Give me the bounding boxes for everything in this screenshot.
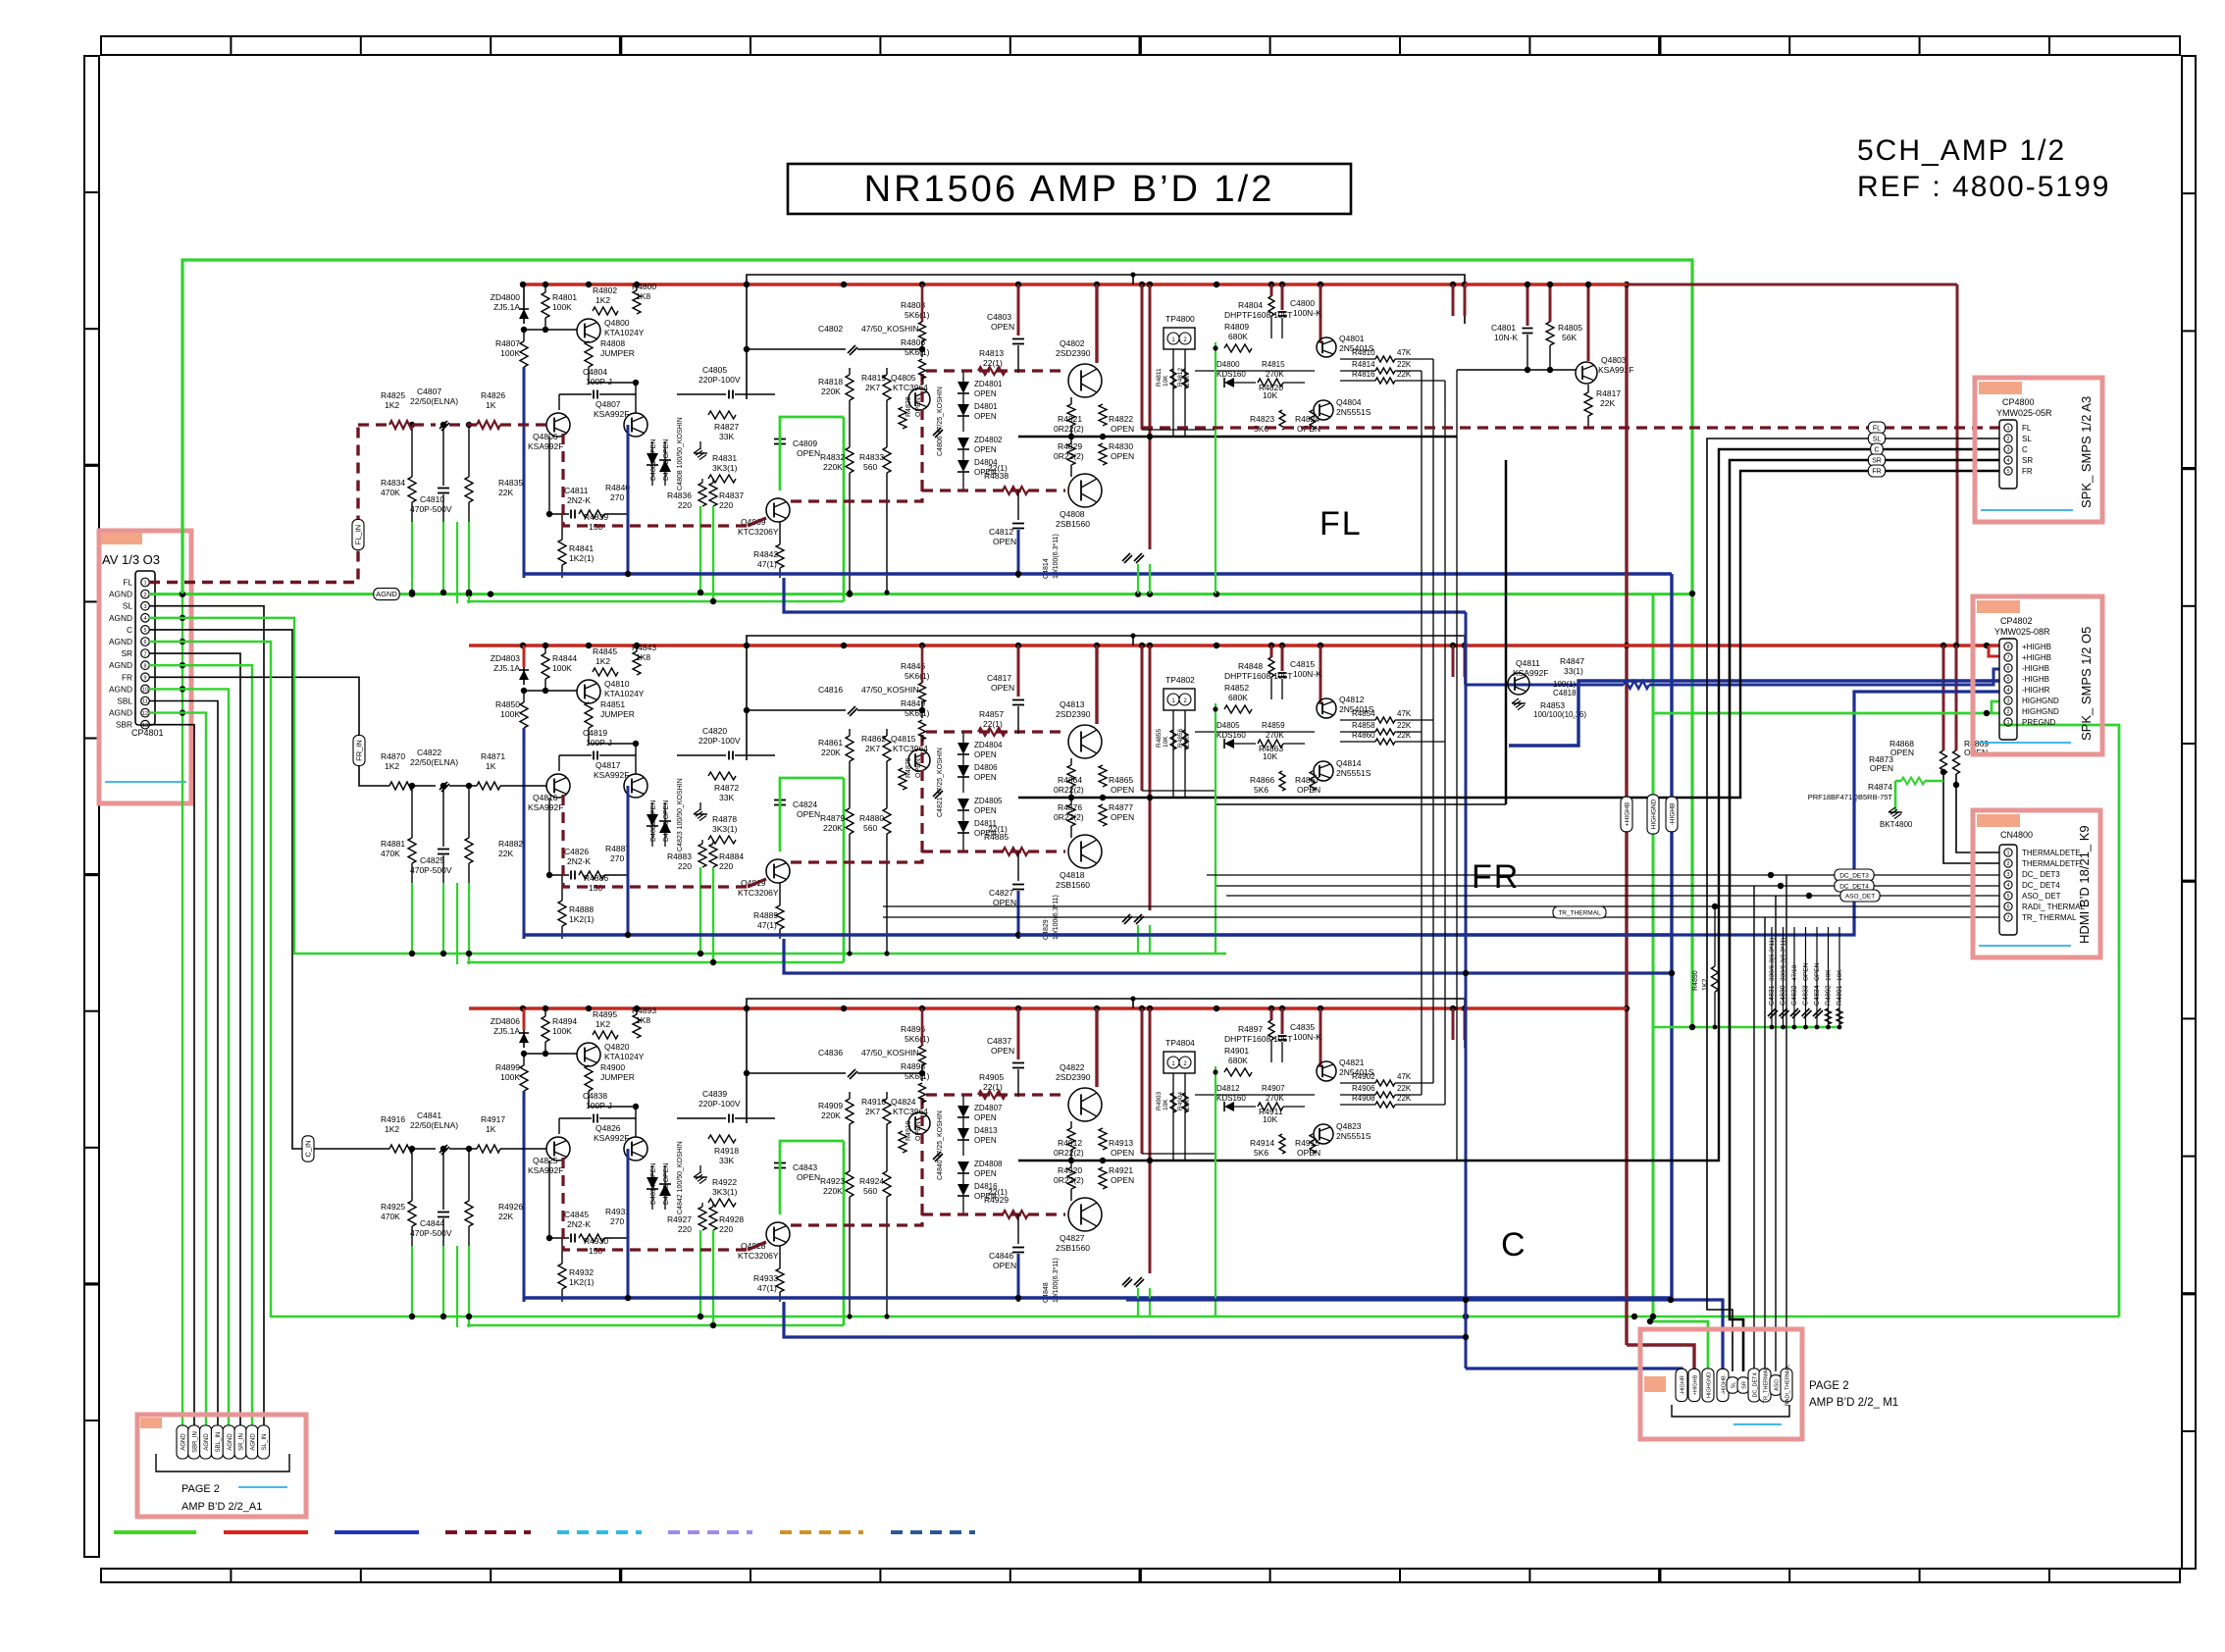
svg-text:470P-500V: 470P-500V xyxy=(410,1228,452,1238)
svg-text:R4878: R4878 xyxy=(712,814,737,824)
transistor Q4828 KTC3206Y driver xyxy=(766,1222,790,1246)
navy second rail xyxy=(784,578,1466,612)
ground Q4811 xyxy=(1512,698,1519,703)
svg-text:22/50(ELNA): 22/50(ELNA) xyxy=(410,757,458,767)
svg-text:R4845: R4845 xyxy=(593,646,617,656)
net label FR_IN xyxy=(353,736,365,766)
svg-text:R4843: R4843 xyxy=(632,643,656,652)
svg-text:10K: 10K xyxy=(1263,751,1277,761)
wire FR out to CP4800 pin5 xyxy=(1457,471,1999,798)
svg-text:OPEN: OPEN xyxy=(1297,785,1320,795)
svg-text:KTC3206Y: KTC3206Y xyxy=(738,888,779,898)
transistor Q4807 KSA992F xyxy=(624,413,647,437)
svg-text:220P-100V: 220P-100V xyxy=(699,375,741,385)
feedback loop wire xyxy=(747,275,1465,399)
wire green PREGND loop xyxy=(1999,725,2119,1316)
svg-text:TR_THERMAL: TR_THERMAL xyxy=(1764,1368,1770,1404)
svg-text:1K2: 1K2 xyxy=(1702,978,1709,991)
wire SBL from CP4801 pin 11 down to page-2 connector xyxy=(149,701,218,1429)
svg-text:R4844: R4844 xyxy=(552,653,577,663)
svg-text:100K: 100K xyxy=(552,302,572,312)
svg-text:D4803 OPEN: D4803 OPEN xyxy=(663,439,670,481)
svg-text:1: 1 xyxy=(143,581,146,587)
transistor Q4823 2N5551S xyxy=(1314,1124,1333,1144)
svg-text:DC_ DET4: DC_ DET4 xyxy=(2022,881,2060,890)
svg-text:R4907: R4907 xyxy=(1262,1084,1285,1093)
svg-text:R4866: R4866 xyxy=(1250,775,1274,785)
svg-text:AGND: AGND xyxy=(109,684,132,694)
svg-text:22/50(ELNA): 22/50(ELNA) xyxy=(410,396,458,406)
svg-text:REF : 4800-5199: REF : 4800-5199 xyxy=(1857,171,2110,203)
svg-text:2N2-K: 2N2-K xyxy=(567,856,591,866)
ladder bus verticals xyxy=(1421,371,1423,1095)
svg-text:R4894: R4894 xyxy=(552,1016,577,1026)
svg-text:Q4804: Q4804 xyxy=(1336,397,1362,407)
svg-text:FL: FL xyxy=(1873,426,1881,433)
svg-text:C: C xyxy=(127,625,132,635)
wire navy to bottom -HIGHB pill xyxy=(1126,1300,1723,1368)
C input row xyxy=(314,1148,389,1150)
svg-text:R4850: R4850 xyxy=(495,699,520,709)
svg-text:270: 270 xyxy=(610,492,624,502)
svg-text:AMP B’D 2/2_ M1: AMP B’D 2/2_ M1 xyxy=(1809,1397,1898,1409)
resistor R4801 100K xyxy=(544,284,546,292)
svg-text:5: 5 xyxy=(143,628,146,634)
CP4801 pin 6 AGND xyxy=(141,638,150,646)
green/navy channel tails xyxy=(523,367,526,578)
wire FR_IN from CP4801 pin9 xyxy=(149,677,389,786)
svg-text:470K: 470K xyxy=(381,488,400,497)
svg-text:2: 2 xyxy=(2006,437,2009,442)
wire AGND top green loop xyxy=(182,260,1692,1027)
svg-text:R4870: R4870 xyxy=(381,751,405,761)
wire AGND main from CP4801 pin2 xyxy=(149,593,1692,595)
svg-text:R4872: R4872 xyxy=(714,783,739,793)
svg-text:10N-K: 10N-K xyxy=(1494,333,1518,342)
svg-text:2N5551S: 2N5551S xyxy=(1336,407,1371,417)
svg-text:R4881: R4881 xyxy=(381,839,405,849)
svg-text:SL_IN: SL_IN xyxy=(262,1434,268,1451)
svg-text:C4803: C4803 xyxy=(987,312,1011,322)
svg-text:220K: 220K xyxy=(823,823,843,833)
bias diode column ZD/D OPEN xyxy=(957,382,969,393)
CP4801 pin 1 FL xyxy=(141,578,150,587)
svg-text:OPEN: OPEN xyxy=(974,389,997,398)
svg-text:C: C xyxy=(1874,447,1879,454)
wire green elbow xyxy=(780,417,844,490)
svg-text:Q4814: Q4814 xyxy=(1336,758,1362,768)
svg-text:3: 3 xyxy=(143,604,146,610)
svg-text:SR: SR xyxy=(1872,458,1882,465)
connector CP4800 cyan underline xyxy=(1981,509,2073,511)
svg-text:OPEN: OPEN xyxy=(974,412,997,421)
feedback loop wire xyxy=(747,999,1465,1123)
output transistor Q4802 2SD2390 xyxy=(1068,364,1102,397)
svg-text:OPEN: OPEN xyxy=(1297,1148,1320,1158)
svg-text:CP4800: CP4800 xyxy=(2002,397,2035,407)
svg-text:R4827: R4827 xyxy=(714,422,739,432)
svg-text:1K8: 1K8 xyxy=(636,652,650,662)
svg-text:DC_ DET3: DC_ DET3 xyxy=(2022,870,2060,879)
wire green return inner xyxy=(467,600,844,602)
transistor Q4800 KTA1024Y xyxy=(577,319,600,342)
diodes D4814 D4815 OPEN xyxy=(647,1177,658,1189)
transistor Q4819 KTC3206Y driver xyxy=(766,859,790,883)
svg-text:6: 6 xyxy=(143,640,146,645)
svg-text:C4802: C4802 xyxy=(818,324,843,334)
svg-text:47K: 47K xyxy=(1397,348,1412,357)
svg-text:9: 9 xyxy=(143,676,146,682)
svg-text:R4851: R4851 xyxy=(600,699,625,709)
svg-text:FL: FL xyxy=(123,578,132,588)
svg-text:JUMPER: JUMPER xyxy=(600,709,635,719)
svg-text:10/100(6.3*11): 10/100(6.3*11) xyxy=(1053,1258,1060,1303)
svg-text:10K: 10K xyxy=(1163,375,1169,387)
maroon feeder verticals xyxy=(1095,645,1098,724)
svg-text:SR: SR xyxy=(121,648,132,658)
net label C_IN xyxy=(302,1136,314,1162)
maroon feeder verticals xyxy=(1095,284,1098,363)
svg-text:C4821 47/25_KOSHIN: C4821 47/25_KOSHIN xyxy=(937,748,944,817)
svg-text:680K: 680K xyxy=(1228,1056,1248,1065)
svg-text:4: 4 xyxy=(2006,883,2009,889)
svg-text:C4838: C4838 xyxy=(583,1091,607,1101)
svg-text:C4814: C4814 xyxy=(1043,558,1050,579)
svg-text:R4924: R4924 xyxy=(859,1176,884,1186)
svg-text:22K: 22K xyxy=(1397,1084,1412,1093)
CP4801 pin 12 AGND xyxy=(141,708,150,717)
svg-text:C4806 47/25_KOSHIN: C4806 47/25_KOSHIN xyxy=(937,387,944,456)
svg-text:4: 4 xyxy=(2006,688,2009,694)
svg-text:R4871: R4871 xyxy=(481,751,505,761)
navy lower rail xyxy=(524,1296,1672,1300)
svg-text:Q4822: Q4822 xyxy=(1060,1062,1085,1072)
svg-text:220: 220 xyxy=(719,1224,733,1234)
svg-text:5K6(1): 5K6(1) xyxy=(905,310,930,320)
svg-text:C4805: C4805 xyxy=(702,365,727,375)
svg-text:22K: 22K xyxy=(498,1212,513,1221)
connector CP4800 body xyxy=(1999,420,2017,489)
svg-text:AGND: AGND xyxy=(376,590,397,598)
page2 A1 bracket xyxy=(156,1454,289,1471)
svg-text:OPEN: OPEN xyxy=(1111,1148,1134,1158)
svg-text:100(1): 100(1) xyxy=(1553,680,1576,689)
svg-text:C4824: C4824 xyxy=(793,800,817,809)
rotated bus tags +HIGHB HIGHGND -HIGHB xyxy=(1621,797,1632,832)
svg-text:KTA1024Y: KTA1024Y xyxy=(604,1052,645,1061)
feedback loop wire xyxy=(747,636,1465,760)
svg-text:R4801: R4801 xyxy=(552,292,577,302)
ground BKT4800 xyxy=(1889,807,1895,812)
svg-text:2N5551S: 2N5551S xyxy=(1336,768,1371,778)
wire green bottom HIGHGND to page2 xyxy=(1650,1321,1708,1368)
svg-text:1K2: 1K2 xyxy=(385,761,399,771)
svg-text:R4858: R4858 xyxy=(1352,721,1375,730)
svg-text:100N-K: 100N-K xyxy=(1293,308,1321,318)
wire green elbow xyxy=(780,1141,844,1214)
svg-text:1: 1 xyxy=(2006,426,2009,432)
svg-text:C4829: C4829 xyxy=(1043,919,1050,940)
svg-text:R4836: R4836 xyxy=(667,490,692,500)
svg-text:AMP B’D 2/2_A1: AMP B’D 2/2_A1 xyxy=(181,1501,262,1513)
svg-text:10K: 10K xyxy=(1163,736,1169,748)
svg-text:HDMI B’D 18/21_ K9: HDMI B’D 18/21_ K9 xyxy=(2077,825,2092,944)
svg-text:PAGE 2: PAGE 2 xyxy=(1809,1380,1849,1392)
svg-text:220K: 220K xyxy=(821,748,841,757)
svg-text:22K: 22K xyxy=(1600,398,1615,408)
wire C bus to maroon vertical xyxy=(1465,1007,1627,1009)
svg-text:4: 4 xyxy=(143,616,146,622)
svg-text:OPEN: OPEN xyxy=(993,537,1016,546)
svg-text:R4865: R4865 xyxy=(1109,775,1133,785)
transistor Q4801 2N5401S xyxy=(1317,337,1336,357)
svg-text:3K3(1): 3K3(1) xyxy=(712,463,738,473)
diodes D4808 D4810 OPEN xyxy=(647,814,658,826)
svg-text:R4927: R4927 xyxy=(667,1214,692,1224)
svg-text:22(1): 22(1) xyxy=(988,463,1008,473)
svg-text:KTA1024Y: KTA1024Y xyxy=(604,328,645,337)
svg-text:OPEN: OPEN xyxy=(1890,748,1914,757)
wire +HIGHB maroon vertical bus xyxy=(1625,284,1628,1345)
FR input row xyxy=(413,785,436,787)
svg-text:D4815 OPEN: D4815 OPEN xyxy=(663,1163,670,1205)
svg-text:OPEN: OPEN xyxy=(974,1169,997,1178)
transistor Q4804 2N5551S xyxy=(1314,400,1333,420)
svg-text:KSA992F: KSA992F xyxy=(528,1165,563,1175)
svg-text:C4845: C4845 xyxy=(564,1210,589,1219)
svg-text:220K: 220K xyxy=(821,387,841,396)
svg-text:C4816: C4816 xyxy=(818,685,843,695)
svg-text:R4809: R4809 xyxy=(1224,322,1249,332)
svg-text:R4874: R4874 xyxy=(1868,782,1892,792)
svg-text:47(1): 47(1) xyxy=(757,920,777,930)
svg-text:1K2: 1K2 xyxy=(385,400,399,410)
svg-text:BKT4800: BKT4800 xyxy=(1880,820,1913,829)
svg-text:FL_IN: FL_IN xyxy=(354,525,363,544)
green/navy channel tails xyxy=(523,728,526,939)
svg-text:7: 7 xyxy=(143,651,146,657)
wire AGND return C block from pin6 xyxy=(149,642,2119,1316)
svg-text:SR: SR xyxy=(2022,456,2033,465)
svg-text:220: 220 xyxy=(678,861,692,871)
ground xyxy=(694,1172,700,1177)
svg-text:SR_IN: SR_IN xyxy=(239,1433,245,1451)
svg-text:KSA992F: KSA992F xyxy=(1598,365,1633,375)
svg-text:8: 8 xyxy=(2006,645,2009,650)
svg-text:33K: 33K xyxy=(719,1156,734,1165)
svg-text:C4844: C4844 xyxy=(420,1218,444,1228)
svg-text:R4899: R4899 xyxy=(495,1062,520,1072)
wire ASO_DET line xyxy=(1226,895,1999,897)
border frame bottom ruler band xyxy=(101,1569,2180,1582)
svg-text:KSA992F: KSA992F xyxy=(594,1133,629,1143)
svg-text:FR: FR xyxy=(1472,858,1520,896)
svg-text:DC_DET4: DC_DET4 xyxy=(1753,1372,1759,1397)
wire DC_DET4 line xyxy=(1216,885,1999,887)
transistor Q4803 KSA992F xyxy=(1587,284,1590,361)
svg-text:0R22(2): 0R22(2) xyxy=(1054,424,1084,434)
wire AGND return FR block from pin4 xyxy=(149,618,1226,954)
wire THERMALDETE to CN4800 pin1 xyxy=(1956,774,1999,852)
svg-text:C4848: C4848 xyxy=(1043,1282,1050,1303)
wire SBR from CP4801 pin 13 down to page-2 connector xyxy=(149,725,194,1428)
svg-text:C4822: C4822 xyxy=(417,748,441,757)
svg-text:R4890: R4890 xyxy=(1692,970,1699,991)
svg-text:+HIGHB: +HIGHB xyxy=(1693,1374,1699,1395)
svg-text:220: 220 xyxy=(719,500,733,510)
svg-text:470K: 470K xyxy=(381,1212,400,1221)
svg-text:OPEN: OPEN xyxy=(1111,1175,1134,1185)
net label ASO_DET xyxy=(1840,890,1880,902)
wire green emitter pair xyxy=(699,867,701,954)
navy second rail xyxy=(784,1302,1466,1337)
green/navy channel tails xyxy=(523,1091,526,1302)
svg-text:SPK_ SMPS 1/2 O5: SPK_ SMPS 1/2 O5 xyxy=(2079,627,2094,741)
svg-text:100K: 100K xyxy=(500,709,520,719)
svg-text:C4809: C4809 xyxy=(793,439,817,448)
svg-text:D4814 OPEN: D4814 OPEN xyxy=(650,1163,657,1205)
maroon feeder verticals xyxy=(1095,1008,1098,1087)
svg-text:SL: SL xyxy=(1732,1382,1737,1389)
svg-text:AGND: AGND xyxy=(109,590,132,599)
svg-text:Q4823: Q4823 xyxy=(1336,1121,1362,1131)
svg-text:47(1): 47(1) xyxy=(757,559,777,569)
svg-text:AGND: AGND xyxy=(250,1433,256,1451)
svg-text:Q4818: Q4818 xyxy=(1060,870,1085,880)
connector CP4802 highlight box xyxy=(1973,596,2102,754)
bias diode column ZD/D OPEN xyxy=(957,743,969,754)
svg-text:R4909: R4909 xyxy=(818,1101,843,1110)
svg-text:HIGHGND: HIGHGND xyxy=(2022,697,2059,705)
svg-text:AGND: AGND xyxy=(109,708,132,718)
svg-text:ZD4805: ZD4805 xyxy=(974,797,1003,805)
svg-text:C_IN: C_IN xyxy=(304,1140,313,1157)
svg-text:R4925: R4925 xyxy=(381,1202,405,1212)
svg-text:R4810: R4810 xyxy=(1352,348,1375,357)
svg-text:D4801: D4801 xyxy=(974,402,998,411)
svg-text:7: 7 xyxy=(2006,915,2009,921)
CP4801 pin 11 SBL xyxy=(141,697,150,705)
zener ZD4803 ZJ5.1A xyxy=(523,645,525,685)
svg-text:47/50_KOSHIN: 47/50_KOSHIN xyxy=(861,1048,919,1058)
svg-text:C4808 100/50_KOSHIN: C4808 100/50_KOSHIN xyxy=(677,417,684,490)
transistor Q4812 2N5401S xyxy=(1317,698,1336,718)
svg-text:2N2-K: 2N2-K xyxy=(567,495,591,505)
dashed FL input network xyxy=(358,423,389,426)
svg-text:R4919: R4919 xyxy=(906,1120,912,1141)
svg-text:220P-100V: 220P-100V xyxy=(699,1099,741,1109)
green stubs to output caps xyxy=(1137,564,1139,594)
svg-text:RADI_ THERMAL: RADI_ THERMAL xyxy=(2022,903,2085,911)
svg-text:680K: 680K xyxy=(1228,332,1248,341)
transistor Q4817 KSA992F xyxy=(624,774,647,798)
svg-text:7: 7 xyxy=(2006,655,2009,661)
svg-text:1: 1 xyxy=(2006,851,2009,856)
svg-text:R4814: R4814 xyxy=(1352,360,1375,369)
svg-text:R4839: R4839 xyxy=(584,512,608,522)
svg-text:R4819: R4819 xyxy=(861,373,886,383)
net label DC_DET4 xyxy=(1835,880,1874,892)
svg-text:Q4824: Q4824 xyxy=(891,1097,916,1107)
svg-text:OPEN: OPEN xyxy=(974,1136,997,1145)
svg-text:1K2: 1K2 xyxy=(385,1124,399,1134)
svg-text:47/50_KOSHIN: 47/50_KOSHIN xyxy=(861,685,919,695)
svg-text:FR: FR xyxy=(1872,469,1881,476)
svg-text:R4847: R4847 xyxy=(1560,656,1584,666)
svg-text:C4819: C4819 xyxy=(583,728,607,738)
svg-text:R4886: R4886 xyxy=(584,873,608,883)
svg-text:OPEN: OPEN xyxy=(797,809,820,819)
svg-text:1K2: 1K2 xyxy=(595,656,610,666)
svg-text:47K: 47K xyxy=(1397,709,1412,718)
svg-text:100K: 100K xyxy=(552,663,572,673)
svg-text:HIGHGND: HIGHGND xyxy=(1651,799,1658,829)
svg-text:5: 5 xyxy=(2006,469,2009,475)
connector PAGE 2 AMP B'D 2/2_A1 highlight box xyxy=(137,1415,306,1517)
svg-text:OPEN: OPEN xyxy=(1111,424,1134,434)
svg-text:R4805: R4805 xyxy=(1558,323,1582,333)
svg-text:C4812: C4812 xyxy=(989,527,1013,537)
svg-text:C4804: C4804 xyxy=(583,367,607,377)
connector CP4801 highlight box AV 1/3 O3 xyxy=(99,531,191,803)
svg-text:Q4827: Q4827 xyxy=(1060,1233,1085,1243)
svg-text:1K: 1K xyxy=(486,400,496,410)
page2 A1 cyan mark xyxy=(238,1486,287,1488)
svg-text:SBR_IN: SBR_IN xyxy=(192,1431,198,1453)
svg-text:+HIGHB: +HIGHB xyxy=(1625,802,1631,826)
output transistor Q4813 2SD2390 xyxy=(1068,725,1102,758)
svg-text:22K: 22K xyxy=(1397,721,1412,730)
svg-text:12: 12 xyxy=(142,711,148,717)
svg-text:R4853: R4853 xyxy=(1540,700,1565,710)
svg-text:1: 1 xyxy=(2006,720,2009,726)
svg-text:+HIGHB: +HIGHB xyxy=(2022,643,2051,651)
wire TR_THERMAL line xyxy=(883,916,1999,918)
svg-text:11: 11 xyxy=(142,699,148,705)
svg-text:D4812: D4812 xyxy=(1216,1084,1240,1093)
svg-text:R4857: R4857 xyxy=(979,709,1004,719)
transistor Q4820 KTA1024Y xyxy=(577,1043,600,1066)
svg-text:1K2(1): 1K2(1) xyxy=(569,1277,595,1287)
transistor Q4806 KSA992F input pair xyxy=(546,413,570,437)
output node wire xyxy=(1018,436,1216,439)
svg-text:2: 2 xyxy=(2006,861,2009,867)
svg-text:33K: 33K xyxy=(719,793,734,802)
svg-text:SPK_ SMPS 1/2 A3: SPK_ SMPS 1/2 A3 xyxy=(2079,396,2094,508)
svg-text:100P-J: 100P-J xyxy=(586,1101,612,1110)
svg-text:ASO: ASO xyxy=(1775,1378,1781,1390)
page2 A1 net pills xyxy=(177,1425,188,1459)
svg-text:220K: 220K xyxy=(823,1186,843,1196)
ground xyxy=(694,448,700,453)
svg-text:R4875: R4875 xyxy=(906,757,912,778)
svg-text:R4882: R4882 xyxy=(498,839,523,849)
svg-text:YMW025-05R: YMW025-05R xyxy=(1996,408,2052,418)
svg-text:C4826: C4826 xyxy=(564,847,589,856)
svg-text:ZD4806: ZD4806 xyxy=(491,1016,521,1026)
output transistor Q4818 2SB1560 xyxy=(1068,835,1102,868)
svg-text:2K7: 2K7 xyxy=(865,383,880,392)
svg-text:R4928: R4928 xyxy=(719,1214,744,1224)
svg-text:YMW025-08R: YMW025-08R xyxy=(1994,627,2050,637)
transistor Q4825 KSA992F input pair xyxy=(546,1137,570,1161)
svg-text:AV 1/3 O3: AV 1/3 O3 xyxy=(102,552,160,567)
svg-text:D4802 OPEN: D4802 OPEN xyxy=(650,439,657,481)
wire SL from CP4801 pin 3 down to page-2 connector xyxy=(149,606,264,1428)
wire DC_DET3 line xyxy=(1207,874,1999,876)
svg-text:OPEN: OPEN xyxy=(974,1113,997,1122)
svg-text:R4905: R4905 xyxy=(979,1072,1004,1082)
